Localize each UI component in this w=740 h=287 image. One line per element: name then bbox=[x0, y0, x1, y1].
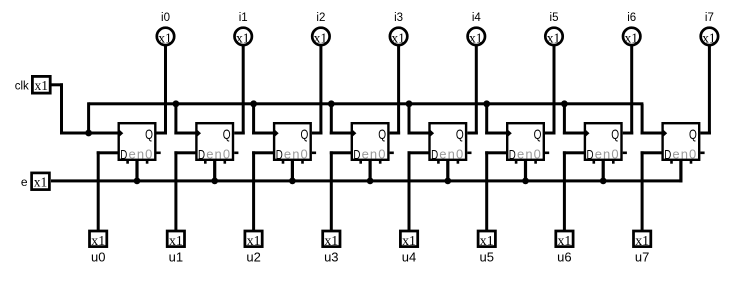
label u1 bbox=[169, 250, 183, 265]
flip-flop FF4 (en0) bbox=[430, 123, 472, 164]
input u4 bbox=[400, 231, 417, 248]
svg-text:x1: x1 bbox=[635, 233, 649, 248]
label i1 bbox=[239, 12, 248, 24]
wire enable FF5 to e bus bbox=[524, 161, 527, 182]
wire input u3 to D3 bbox=[330, 151, 352, 230]
pin label D FF5 bbox=[509, 149, 516, 162]
junction clk bus FF2 bbox=[250, 100, 257, 107]
wire Q3 to output i3 bbox=[390, 44, 401, 134]
svg-text:u3: u3 bbox=[324, 250, 338, 265]
input u1 bbox=[167, 231, 184, 248]
svg-text:en0: en0 bbox=[595, 147, 620, 162]
svg-text:en0: en0 bbox=[439, 147, 464, 162]
label u0 bbox=[91, 250, 105, 265]
svg-text:Q: Q bbox=[223, 126, 231, 142]
cell type label en0 FF6 bbox=[595, 147, 620, 162]
pin label Q FF1 bbox=[223, 126, 231, 142]
svg-text:x1: x1 bbox=[558, 233, 572, 248]
svg-text:u1: u1 bbox=[169, 250, 183, 265]
pin label D FF1 bbox=[198, 149, 205, 162]
label i4 bbox=[472, 12, 482, 24]
wire Q6 to output i6 bbox=[623, 44, 634, 134]
svg-text:x1: x1 bbox=[480, 233, 494, 248]
wire Q2 to output i2 bbox=[312, 44, 323, 134]
cell type label en0 FF1 bbox=[206, 147, 231, 162]
wire input u6 to D6 bbox=[563, 151, 585, 230]
pin label D FF0 bbox=[120, 149, 127, 162]
flip-flop FF2 (en0) bbox=[274, 123, 316, 164]
e bus bbox=[51, 179, 682, 182]
output i2 bbox=[312, 28, 329, 46]
junction e bus FF0 bbox=[134, 178, 141, 185]
output i0 bbox=[157, 28, 174, 46]
input u2 bbox=[245, 231, 262, 248]
pin label Q FF3 bbox=[378, 126, 386, 142]
svg-text:en0: en0 bbox=[362, 147, 387, 162]
svg-text:en0: en0 bbox=[129, 147, 154, 162]
svg-text:u4: u4 bbox=[402, 250, 416, 265]
label i7 bbox=[705, 12, 714, 24]
output i4 bbox=[468, 28, 485, 46]
svg-text:x1: x1 bbox=[35, 78, 49, 93]
label i0 bbox=[161, 12, 170, 24]
wire enable FF2 to e bus bbox=[291, 161, 294, 182]
flip-flop FF5 (en0) bbox=[507, 123, 549, 164]
wire clk drop to FF4 bbox=[408, 104, 430, 135]
svg-text:e: e bbox=[21, 175, 28, 189]
wire clk box to corner bbox=[51, 83, 119, 134]
input u3 bbox=[323, 231, 340, 248]
svg-text:i3: i3 bbox=[394, 12, 403, 24]
junction clk bus FF5 bbox=[483, 100, 490, 107]
svg-text:u0: u0 bbox=[91, 250, 105, 265]
svg-text:u2: u2 bbox=[246, 250, 260, 265]
input e bbox=[32, 173, 50, 190]
svg-text:D: D bbox=[276, 149, 283, 162]
junction clk bus FF6 bbox=[561, 100, 568, 107]
svg-text:i1: i1 bbox=[239, 12, 248, 24]
label u6 bbox=[557, 250, 571, 265]
svg-text:D: D bbox=[587, 149, 594, 162]
pin label D FF4 bbox=[431, 149, 438, 162]
label i3 bbox=[394, 12, 403, 24]
wire input u0 to D0 bbox=[97, 151, 119, 230]
svg-text:x1: x1 bbox=[402, 233, 416, 248]
wire enable FF1 to e bus bbox=[213, 161, 216, 182]
svg-text:Q: Q bbox=[456, 126, 464, 142]
svg-text:x1: x1 bbox=[91, 233, 105, 248]
label clk bbox=[15, 81, 29, 93]
svg-text:en0: en0 bbox=[284, 147, 309, 162]
junction e bus FF1 bbox=[211, 178, 218, 185]
cell type label en0 FF5 bbox=[517, 147, 542, 162]
output i6 bbox=[623, 28, 640, 46]
output i5 bbox=[545, 28, 562, 46]
svg-text:x1: x1 bbox=[34, 175, 48, 190]
cell type label en0 FF2 bbox=[284, 147, 309, 162]
svg-text:D: D bbox=[353, 149, 360, 162]
wire clk drop to FF2 bbox=[252, 104, 274, 135]
wire input u1 to D1 bbox=[174, 151, 196, 230]
input u6 bbox=[556, 231, 573, 248]
svg-text:i4: i4 bbox=[472, 12, 482, 24]
svg-text:D: D bbox=[431, 149, 438, 162]
input u0 bbox=[90, 231, 107, 248]
svg-text:en0: en0 bbox=[517, 147, 542, 162]
label u3 bbox=[324, 250, 338, 265]
cell type label en0 FF4 bbox=[439, 147, 464, 162]
pin label Q FF6 bbox=[611, 126, 619, 142]
label u4 bbox=[402, 250, 416, 265]
svg-text:x1: x1 bbox=[314, 30, 328, 45]
label i5 bbox=[550, 12, 559, 24]
input clk bbox=[32, 76, 50, 93]
svg-text:D: D bbox=[198, 149, 205, 162]
wire input u2 to D2 bbox=[252, 151, 274, 230]
wire clk drop to FF6 bbox=[563, 104, 585, 135]
junction clk bus FF3 bbox=[328, 100, 335, 107]
label u7 bbox=[635, 250, 649, 265]
label e bbox=[21, 175, 28, 189]
label i6 bbox=[627, 12, 636, 24]
svg-text:x1: x1 bbox=[236, 30, 250, 45]
svg-text:u6: u6 bbox=[557, 250, 571, 265]
label u5 bbox=[479, 250, 493, 265]
svg-text:i5: i5 bbox=[550, 12, 559, 24]
junction clk fanout bbox=[85, 130, 92, 137]
wire input u4 to D4 bbox=[408, 151, 430, 230]
junction e bus FF3 bbox=[367, 178, 374, 185]
svg-text:D: D bbox=[664, 149, 671, 162]
flip-flop FF6 (en0) bbox=[585, 123, 627, 164]
wire enable FF6 to e bus bbox=[602, 161, 605, 182]
wire clk riser to bus bbox=[87, 102, 90, 133]
svg-text:x1: x1 bbox=[624, 30, 638, 45]
wire Q4 to output i4 bbox=[467, 44, 478, 134]
cell type label en0 FF0 bbox=[129, 147, 154, 162]
label i2 bbox=[316, 12, 325, 24]
svg-text:x1: x1 bbox=[702, 30, 716, 45]
flip-flop FF1 (en0) bbox=[196, 123, 238, 164]
wire clk drop to FF3 bbox=[330, 104, 352, 135]
junction e bus FF2 bbox=[289, 178, 296, 185]
junction clk bus FF1 bbox=[173, 100, 180, 107]
clk bus bbox=[89, 102, 644, 105]
wire Q1 to output i1 bbox=[234, 44, 245, 134]
wire input u7 to D7 bbox=[641, 151, 663, 230]
wire clk drop to FF1 bbox=[174, 104, 196, 135]
svg-text:en0: en0 bbox=[672, 147, 697, 162]
input u7 bbox=[634, 231, 651, 248]
svg-text:u7: u7 bbox=[635, 250, 649, 265]
wire input u5 to D5 bbox=[485, 151, 507, 230]
wire Q7 to output i7 bbox=[700, 44, 711, 134]
pin label D FF3 bbox=[353, 149, 360, 162]
pin label Q FF0 bbox=[145, 126, 153, 142]
svg-text:x1: x1 bbox=[247, 233, 261, 248]
svg-text:x1: x1 bbox=[324, 233, 338, 248]
pin label D FF2 bbox=[276, 149, 283, 162]
wire Q0 to output i0 bbox=[157, 44, 168, 134]
junction e bus FF4 bbox=[444, 178, 451, 185]
pin label D FF6 bbox=[587, 149, 594, 162]
svg-text:x1: x1 bbox=[547, 30, 561, 45]
pin label Q FF7 bbox=[689, 126, 697, 142]
output i1 bbox=[235, 28, 252, 46]
cell type label en0 FF7 bbox=[672, 147, 697, 162]
pin label Q FF2 bbox=[301, 126, 309, 142]
output i7 bbox=[701, 28, 718, 46]
svg-text:Q: Q bbox=[611, 126, 619, 142]
svg-text:D: D bbox=[509, 149, 516, 162]
pin label D FF7 bbox=[664, 149, 671, 162]
svg-text:Q: Q bbox=[378, 126, 386, 142]
wire enable FF3 to e bus bbox=[369, 161, 372, 182]
flip-flop FF3 (en0) bbox=[352, 123, 394, 164]
svg-text:Q: Q bbox=[145, 126, 153, 142]
svg-text:Q: Q bbox=[301, 126, 309, 142]
svg-text:Q: Q bbox=[689, 126, 697, 142]
junction e bus FF5 bbox=[522, 178, 529, 185]
wire clk drop to FF7 bbox=[641, 104, 663, 135]
wire enable FF7 to e bus bbox=[679, 161, 682, 182]
svg-text:D: D bbox=[120, 149, 127, 162]
output i3 bbox=[390, 28, 407, 46]
wire enable FF0 to e bus bbox=[135, 161, 138, 182]
svg-text:i7: i7 bbox=[705, 12, 714, 24]
flip-flop FF7 (en0) bbox=[663, 123, 705, 164]
svg-text:i0: i0 bbox=[161, 12, 170, 24]
svg-text:clk: clk bbox=[15, 81, 29, 93]
svg-text:i6: i6 bbox=[627, 12, 636, 24]
junction e bus FF6 bbox=[600, 178, 607, 185]
svg-text:en0: en0 bbox=[206, 147, 231, 162]
svg-text:x1: x1 bbox=[158, 30, 172, 45]
svg-text:i2: i2 bbox=[316, 12, 325, 24]
svg-text:x1: x1 bbox=[469, 30, 483, 45]
label u2 bbox=[246, 250, 260, 265]
wire enable FF4 to e bus bbox=[446, 161, 449, 182]
svg-text:u5: u5 bbox=[479, 250, 493, 265]
svg-text:x1: x1 bbox=[169, 233, 183, 248]
flip-flop FF0 (en0) bbox=[119, 123, 161, 164]
svg-text:x1: x1 bbox=[391, 30, 405, 45]
cell type label en0 FF3 bbox=[362, 147, 387, 162]
pin label Q FF5 bbox=[534, 126, 542, 142]
wire Q5 to output i5 bbox=[545, 44, 556, 134]
junction clk bus FF4 bbox=[406, 100, 413, 107]
input u5 bbox=[478, 231, 495, 248]
pin label Q FF4 bbox=[456, 126, 464, 142]
wire clk drop to FF5 bbox=[485, 104, 507, 135]
svg-text:Q: Q bbox=[534, 126, 542, 142]
